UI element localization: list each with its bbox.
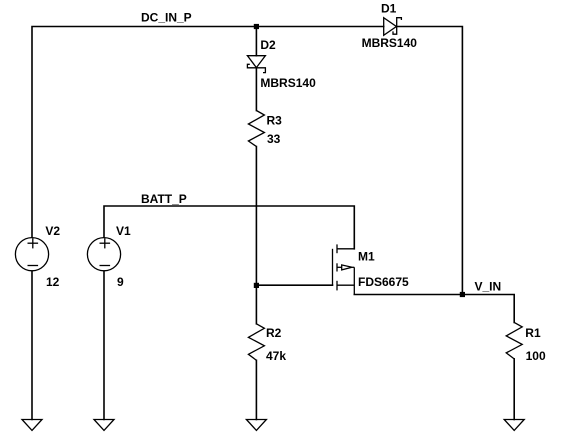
svg-text:V_IN: V_IN [475,279,502,293]
wire M1 drain to V_IN node [354,294,462,296]
wire BATT_P rail [104,206,354,249]
svg-text:R3: R3 [267,114,283,128]
svg-text:M1: M1 [358,250,375,264]
wire D1 cathode to right corner [397,27,463,295]
svg-text:9: 9 [117,275,124,289]
resistor R2 [248,324,264,361]
ground V1 [94,420,114,431]
wire gate node to M1 [256,284,332,286]
ground V2 [22,420,42,431]
svg-text:V2: V2 [45,224,60,238]
wire top DC_IN_P rail [32,27,384,238]
svg-text:DC_IN_P: DC_IN_P [141,11,192,25]
resistor R1 [506,322,522,359]
node junction V_IN [460,292,465,297]
svg-text:D2: D2 [260,38,276,52]
voltage source V1 [87,238,120,271]
svg-text:FDS6675: FDS6675 [358,275,409,289]
wire D2 cathode to R3 [255,68,257,111]
wire R2 to ground [255,360,257,419]
resistor R3 [248,111,264,147]
svg-text:V1: V1 [116,224,131,238]
svg-text:BATT_P: BATT_P [141,192,187,206]
svg-text:12: 12 [46,275,60,289]
wire V_IN node to R1 [462,295,514,323]
wire D2 anode drop [255,27,257,56]
svg-text:R1: R1 [525,326,541,340]
node junction gate / R2 / R3 [254,283,259,288]
node junction DC_IN_P / D2 [254,24,259,29]
svg-text:47k: 47k [266,349,286,363]
ground R2 [246,420,266,431]
svg-text:MBRS140: MBRS140 [260,76,316,90]
svg-text:33: 33 [267,132,281,146]
wire node to R2 [255,285,257,324]
svg-text:MBRS140: MBRS140 [362,36,418,50]
diode D1 [384,18,402,36]
wire V1 to ground [103,271,105,419]
transistor M1 [333,244,355,294]
svg-text:R2: R2 [266,326,282,340]
wire V2 to ground [31,271,33,419]
wire R3 to node [255,147,257,286]
voltage source V2 [15,238,48,271]
ground R1 [504,420,524,431]
svg-text:100: 100 [526,349,546,363]
diode D2 [247,56,265,73]
svg-text:D1: D1 [381,2,397,16]
wire R1 to ground [513,359,515,420]
